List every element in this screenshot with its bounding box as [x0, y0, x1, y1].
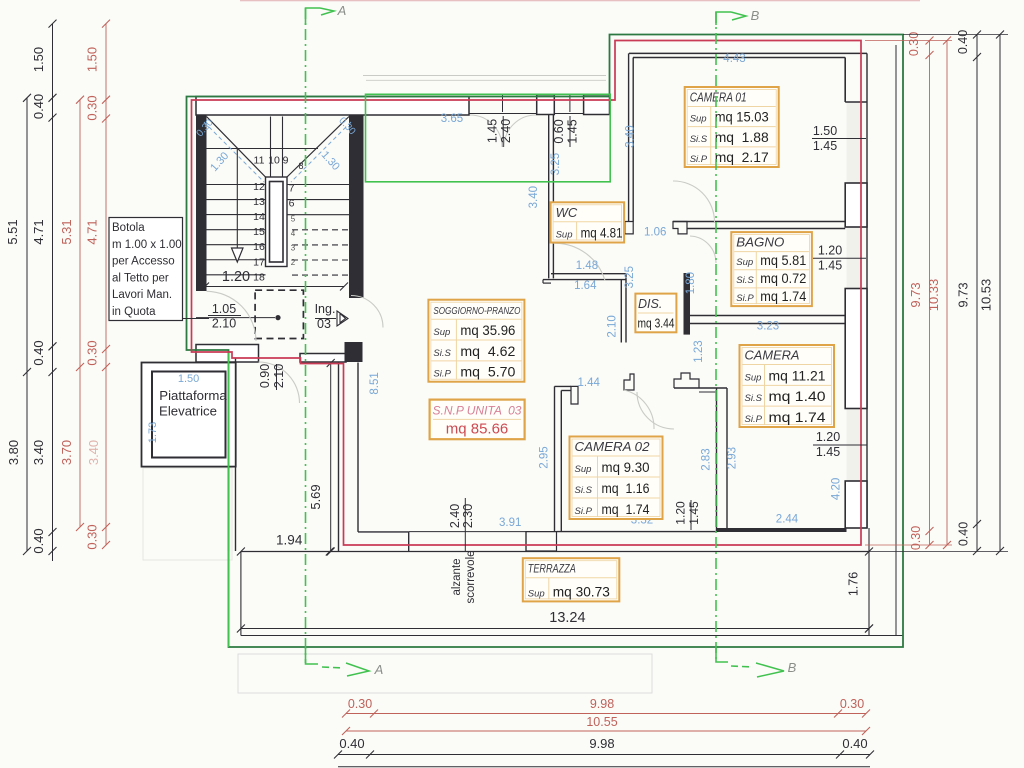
svg-text:0.30: 0.30	[907, 32, 921, 56]
svg-text:0.90: 0.90	[258, 364, 272, 388]
svg-text:1.45: 1.45	[813, 139, 837, 153]
svg-text:3.70: 3.70	[59, 440, 74, 465]
svg-text:5.51: 5.51	[5, 219, 20, 244]
svg-text:CAMERA 01: CAMERA 01	[690, 90, 747, 105]
svg-text:0.30: 0.30	[348, 697, 372, 711]
svg-text:3.40: 3.40	[528, 186, 540, 208]
svg-text:Si.S: Si.S	[690, 134, 708, 145]
svg-text:2.95: 2.95	[539, 446, 551, 468]
svg-text:in Quota: in Quota	[112, 306, 156, 318]
svg-text:Si.S: Si.S	[575, 485, 593, 496]
svg-text:3.65: 3.65	[441, 113, 463, 125]
svg-text:Si.S: Si.S	[433, 348, 451, 359]
svg-text:Si.S: Si.S	[736, 275, 754, 286]
svg-text:Sup: Sup	[745, 372, 762, 383]
svg-text:A: A	[374, 662, 384, 677]
svg-text:2.83: 2.83	[700, 448, 712, 470]
svg-text:mq 1.74: mq 1.74	[760, 288, 806, 304]
svg-text:1.50: 1.50	[85, 47, 100, 72]
svg-text:1.76: 1.76	[847, 572, 861, 596]
svg-text:0.30: 0.30	[85, 95, 100, 120]
svg-text:0.30: 0.30	[85, 340, 100, 365]
svg-text:0.40: 0.40	[31, 528, 46, 553]
svg-text:1.05: 1.05	[212, 302, 236, 316]
svg-text:Sup: Sup	[690, 114, 707, 125]
svg-text:mq 1.40: mq 1.40	[769, 388, 826, 404]
svg-text:6: 6	[289, 198, 295, 210]
svg-text:1.20: 1.20	[818, 244, 842, 258]
svg-text:8: 8	[298, 161, 303, 171]
svg-text:9.73: 9.73	[956, 282, 971, 307]
svg-text:A: A	[337, 3, 347, 18]
svg-text:5: 5	[291, 215, 296, 224]
svg-text:Si.P: Si.P	[433, 369, 451, 380]
svg-text:1.45: 1.45	[818, 259, 842, 273]
svg-text:1.64: 1.64	[574, 280, 597, 292]
svg-text:mq 85.66: mq 85.66	[446, 421, 509, 438]
svg-text:1.23: 1.23	[693, 340, 705, 362]
svg-text:0.40: 0.40	[31, 94, 46, 119]
svg-text:1.20: 1.20	[816, 430, 840, 444]
svg-text:1.50: 1.50	[31, 47, 46, 72]
svg-text:3: 3	[291, 244, 296, 253]
svg-text:BAGNO: BAGNO	[736, 235, 784, 250]
svg-text:0.40: 0.40	[842, 736, 867, 751]
svg-text:10.33: 10.33	[926, 279, 941, 312]
svg-text:2.30: 2.30	[461, 504, 475, 528]
svg-text:m 1.00 x 1.00: m 1.00 x 1.00	[112, 239, 182, 251]
svg-text:mq 9.30: mq 9.30	[602, 459, 650, 475]
svg-text:0.30: 0.30	[840, 697, 864, 711]
svg-text:Si.P: Si.P	[745, 414, 763, 425]
svg-text:13: 13	[253, 196, 265, 208]
svg-text:4.71: 4.71	[85, 219, 100, 244]
svg-text:scorrevole: scorrevole	[465, 550, 477, 603]
svg-text:per Accesso: per Accesso	[112, 256, 175, 268]
svg-text:4.71: 4.71	[31, 219, 46, 244]
svg-text:1.80: 1.80	[685, 272, 697, 294]
svg-text:2: 2	[291, 258, 296, 267]
svg-text:Sup: Sup	[556, 230, 573, 241]
svg-text:mq 5.81: mq 5.81	[760, 252, 806, 268]
svg-text:CAMERA: CAMERA	[745, 348, 800, 363]
svg-text:1.06: 1.06	[644, 227, 666, 239]
svg-text:0.40: 0.40	[956, 30, 970, 54]
svg-text:1.94: 1.94	[276, 533, 303, 548]
svg-text:2.10: 2.10	[212, 317, 236, 331]
svg-text:7: 7	[289, 183, 295, 195]
svg-text:9.98: 9.98	[589, 736, 614, 751]
svg-text:14: 14	[253, 211, 265, 223]
svg-text:mq 3.44: mq 3.44	[638, 316, 675, 331]
svg-text:0.30: 0.30	[909, 526, 923, 550]
svg-text:16: 16	[253, 241, 265, 253]
svg-text:al Tetto per: al Tetto per	[112, 272, 169, 284]
svg-text:2.10: 2.10	[272, 364, 286, 388]
svg-text:Si.P: Si.P	[575, 506, 593, 517]
svg-text:Ing.: Ing.	[315, 302, 336, 316]
svg-text:mq 15.03: mq 15.03	[715, 109, 769, 125]
svg-text:mq 4.62: mq 4.62	[460, 343, 515, 359]
svg-text:17: 17	[253, 256, 265, 268]
svg-text:15: 15	[253, 226, 265, 238]
svg-text:3.40: 3.40	[31, 440, 46, 465]
svg-text:Si.P: Si.P	[690, 154, 708, 165]
svg-text:10.53: 10.53	[979, 279, 994, 312]
svg-text:S.N.P UNITA 03: S.N.P UNITA 03	[433, 404, 522, 418]
svg-text:B: B	[751, 8, 760, 23]
svg-text:3.25: 3.25	[550, 153, 562, 175]
svg-text:4: 4	[291, 229, 296, 238]
svg-text:mq 2.17: mq 2.17	[715, 149, 769, 165]
svg-text:mq 30.73: mq 30.73	[553, 583, 610, 599]
svg-text:Elevatrice: Elevatrice	[159, 404, 217, 419]
svg-text:Sup: Sup	[528, 588, 545, 599]
svg-text:Sup: Sup	[433, 327, 450, 338]
svg-text:mq 1.74: mq 1.74	[769, 409, 826, 425]
svg-text:3.25: 3.25	[624, 266, 636, 288]
svg-text:1.45: 1.45	[816, 445, 840, 459]
svg-text:1.20: 1.20	[674, 501, 688, 525]
svg-text:2.93: 2.93	[727, 447, 739, 469]
svg-text:1.48: 1.48	[576, 260, 598, 272]
svg-text:1.45: 1.45	[687, 501, 701, 525]
svg-text:1.44: 1.44	[578, 377, 601, 389]
svg-text:Sup: Sup	[736, 257, 753, 268]
svg-text:1.45: 1.45	[566, 119, 580, 143]
svg-text:3.91: 3.91	[499, 517, 521, 529]
svg-text:mq 1.74: mq 1.74	[602, 501, 650, 517]
svg-text:B: B	[788, 660, 797, 675]
svg-text:5.31: 5.31	[59, 219, 74, 244]
svg-text:11: 11	[254, 155, 265, 167]
svg-text:2.40: 2.40	[448, 504, 462, 528]
svg-text:TERRAZZA: TERRAZZA	[528, 562, 576, 576]
svg-text:03: 03	[317, 317, 331, 331]
svg-text:mq 4.81: mq 4.81	[581, 225, 623, 241]
svg-text:4.43: 4.43	[723, 53, 745, 65]
svg-text:4.20: 4.20	[831, 478, 843, 500]
svg-text:0.30: 0.30	[85, 524, 100, 549]
svg-text:12: 12	[253, 181, 265, 193]
svg-text:Si.P: Si.P	[736, 293, 754, 304]
svg-text:1.73: 1.73	[147, 422, 159, 443]
svg-text:0.40: 0.40	[957, 522, 971, 546]
svg-text:WC: WC	[556, 205, 578, 220]
svg-text:3.40: 3.40	[624, 125, 636, 147]
svg-text:Piattaforma: Piattaforma	[159, 388, 227, 403]
svg-text:mq 11.21: mq 11.21	[769, 367, 826, 383]
svg-text:8.51: 8.51	[369, 372, 381, 394]
svg-text:mq 1.16: mq 1.16	[602, 480, 650, 496]
svg-text:0.60: 0.60	[552, 119, 566, 143]
svg-text:9.98: 9.98	[590, 697, 614, 711]
svg-text:2.40: 2.40	[499, 119, 513, 143]
svg-text:3.23: 3.23	[757, 321, 779, 333]
svg-text:5.69: 5.69	[308, 484, 323, 509]
svg-text:0.40: 0.40	[31, 340, 46, 365]
svg-text:1.45: 1.45	[486, 119, 500, 143]
svg-text:alzante: alzante	[451, 558, 463, 595]
svg-text:2.10: 2.10	[607, 315, 619, 337]
svg-text:mq 5.70: mq 5.70	[460, 364, 515, 380]
svg-text:9.73: 9.73	[908, 282, 923, 307]
svg-text:CAMERA 02: CAMERA 02	[575, 439, 651, 454]
svg-text:10.55: 10.55	[586, 715, 617, 729]
svg-text:mq 1.88: mq 1.88	[715, 129, 769, 145]
svg-text:1.20: 1.20	[222, 269, 250, 285]
svg-text:mq 0.72: mq 0.72	[760, 270, 806, 286]
svg-text:1.50: 1.50	[178, 373, 199, 385]
svg-text:18: 18	[253, 271, 265, 283]
svg-text:DIS.: DIS.	[638, 297, 662, 311]
svg-text:10: 10	[268, 155, 280, 167]
svg-text:Lavori Man.: Lavori Man.	[112, 289, 172, 301]
svg-text:3.80: 3.80	[6, 440, 21, 465]
svg-text:SOGGIORNO-PRANZO: SOGGIORNO-PRANZO	[433, 305, 520, 317]
svg-text:Botola: Botola	[112, 222, 145, 234]
svg-text:Si.S: Si.S	[745, 393, 763, 404]
svg-text:13.24: 13.24	[549, 610, 585, 626]
svg-text:mq 35.96: mq 35.96	[460, 322, 515, 338]
svg-text:1.50: 1.50	[813, 124, 837, 138]
svg-text:3.40: 3.40	[86, 440, 101, 465]
svg-text:0.40: 0.40	[339, 736, 364, 751]
svg-text:Sup: Sup	[575, 464, 592, 475]
svg-text:2.44: 2.44	[776, 514, 799, 526]
svg-text:9: 9	[283, 155, 289, 167]
